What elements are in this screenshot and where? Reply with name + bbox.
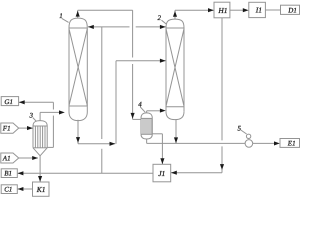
arrow up column1 overhead: [76, 11, 80, 17]
box A1: [1, 153, 19, 163]
wire bottoms header to B1: [18, 172, 153, 174]
box F1: [1, 123, 19, 133]
vessel 4 tubes hatch: [143, 118, 151, 134]
svg-text:J1: J1: [158, 169, 165, 178]
svg-text:F1: F1: [2, 125, 11, 133]
box H1: [214, 2, 230, 18]
svg-text:B1: B1: [4, 170, 12, 178]
arrow right into I1: [243, 8, 249, 12]
arrow left into J1: [171, 171, 177, 175]
wire G1 line: [19, 102, 53, 147]
vessel 4 shell: [141, 113, 152, 139]
wire column2 overhead to H1: [175, 10, 213, 19]
wire K1 to C1: [18, 188, 33, 190]
svg-text:G1: G1: [4, 98, 13, 106]
wire F1 feed: [19, 127, 33, 129]
svg-text:E1: E1: [287, 140, 296, 148]
wire vessel4 side outlet: [152, 134, 162, 144]
arrow right into H1: [208, 8, 214, 12]
arrow down column1 bottoms: [76, 137, 80, 143]
svg-text:1: 1: [59, 12, 63, 20]
svg-text:K1: K1: [36, 185, 46, 194]
wire vessel3 bottoms to K1: [39, 156, 41, 182]
arrow left into column1 top: [88, 25, 94, 29]
pump 5 body: [245, 140, 253, 148]
arrow left into G1: [19, 100, 25, 104]
wire column1 bottoms: [78, 61, 166, 144]
wire vessel3 vapor to column1: [40, 112, 59, 120]
wire H1 to I1: [230, 9, 243, 11]
svg-text:H1: H1: [217, 6, 227, 15]
svg-text:4: 4: [138, 101, 142, 109]
arrow right into column2 feed: [160, 59, 166, 63]
wire vessel4 bottoms header to E1: [147, 139, 275, 143]
vessel 3 tubes hatch: [35, 126, 45, 148]
arrow right column1 bottoms corner: [110, 142, 116, 146]
svg-text:D1: D1: [287, 7, 297, 15]
arrow down into vessel4 elbow: [131, 113, 135, 119]
svg-text:2: 2: [158, 14, 162, 22]
arrow left into C1: [18, 187, 24, 191]
arrow up column2 overhead: [173, 11, 177, 17]
label 3 tick: [33, 118, 36, 122]
wire reflux riser: [101, 27, 103, 173]
arrow right into column1 bottom: [59, 110, 65, 114]
box K1: [33, 182, 50, 196]
arrow right into vessel3: [27, 126, 33, 130]
svg-text:C1: C1: [4, 186, 12, 194]
box E1: [280, 139, 300, 148]
box C1: [1, 185, 17, 194]
wire H1 to J1: [171, 18, 222, 173]
box J1: [153, 164, 171, 182]
arrow right into E1: [274, 141, 280, 145]
arrow right into column2 top: [160, 25, 166, 29]
label 4 tick: [140, 107, 145, 112]
box B1: [1, 169, 17, 178]
column 1 shell: [69, 18, 87, 121]
vessel 3 shell: [33, 121, 47, 156]
wire column2 bottoms: [175, 119, 177, 143]
wire column1 overhead riser: [78, 10, 133, 18]
column 1 packing X: [69, 29, 87, 106]
arrow right A1 junction: [32, 156, 38, 160]
wire condenser drop: [133, 10, 141, 119]
wire vessel4 vapor to column2: [147, 111, 161, 113]
wire J1 top feed: [161, 143, 163, 164]
label 5 tick: [241, 130, 247, 134]
arrow down H1 branch: [220, 164, 224, 170]
svg-text:I1: I1: [255, 6, 262, 15]
wire I1 to D1: [265, 9, 280, 11]
arrow down column2 bottoms: [174, 137, 178, 143]
box G1: [1, 97, 18, 106]
arrow right into column2 bottom: [160, 109, 166, 113]
pump 5 motor: [246, 134, 250, 138]
wire reflux header: [88, 26, 166, 28]
svg-text:3: 3: [29, 112, 34, 120]
column 2 shell: [166, 19, 184, 120]
label 1 tick: [62, 18, 69, 22]
box D1: [281, 5, 300, 14]
arrow down into K1: [38, 176, 42, 182]
arrow down into J1: [160, 158, 164, 164]
label 2 tick: [162, 20, 167, 24]
wire A1 feed: [19, 157, 38, 159]
svg-text:5: 5: [238, 125, 242, 133]
column 2 packing X: [166, 29, 184, 107]
arrow left into B1: [18, 171, 24, 175]
svg-text:A1: A1: [2, 155, 11, 163]
box I1: [249, 2, 266, 17]
